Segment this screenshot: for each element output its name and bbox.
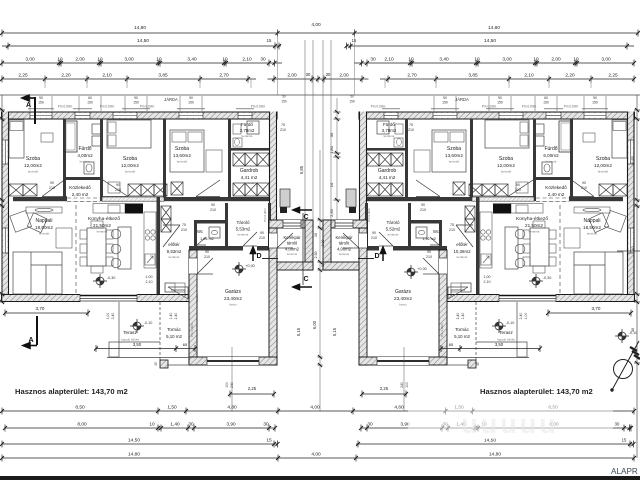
svg-text:2,00: 2,00 [321,240,325,247]
svg-text:-0,10: -0,10 [506,321,515,325]
kitchen counter and fridge (left unit) [93,204,125,214]
wc top wall (right unit) [411,220,442,224]
svg-text:3,40: 3,40 [439,57,449,63]
shower wc sink bath2 (left unit) [247,121,259,134]
svg-text:Pm 0,90m: Pm 0,90m [371,105,386,109]
svg-text:210: 210 [204,255,210,259]
sliding door pocket kitchen (right unit) [472,197,534,201]
svg-text:Szoba: Szoba [499,156,513,162]
svg-text:-0,10: -0,10 [144,321,153,325]
section line C-C [302,213,304,285]
svg-text:5,85: 5,85 [299,165,304,174]
svg-text:laminált: laminált [449,160,460,164]
svg-text:90: 90 [134,96,138,100]
svg-text:30: 30 [367,422,373,428]
svg-text:Közlekedő: Közlekedő [545,185,567,190]
centre vertical extension lines right pair [322,40,324,220]
armchair 2 living (right unit) [589,213,609,233]
wardrobe bedroom3 (left unit) [206,150,222,172]
svg-text:ALAPR: ALAPR [611,467,638,476]
svg-text:10: 10 [149,422,155,428]
svg-text:2,40: 2,40 [111,313,115,320]
garage left wall (right unit) [439,250,447,363]
garage top wall door opening (right unit) [379,246,393,251]
bed bedroom3 (right unit) [432,130,466,172]
svg-text:150: 150 [281,100,287,104]
small dim 2,25 below garage (left unit) [230,393,274,395]
svg-text:150: 150 [442,101,448,105]
svg-text:90: 90 [421,203,425,207]
svg-text:23,40m2: 23,40m2 [394,296,412,301]
svg-text:3,00: 3,00 [601,57,611,63]
svg-text:1,00: 1,00 [524,313,528,320]
svg-text:1,80: 1,80 [329,145,334,154]
interior wall bath/bedroom2 (right unit) [533,119,536,197]
section marker A top [22,95,36,124]
svg-text:23,40m2: 23,40m2 [224,296,242,301]
svg-text:2,25: 2,25 [608,73,618,79]
spot level symbol kitchen (left unit) [93,274,107,288]
window in top wall bedroom 3 (left unit) [179,113,203,118]
svg-text:1,40: 1,40 [170,422,180,428]
bed bedroom2 (right unit) [485,120,529,148]
svg-text:A: A [26,102,31,109]
svg-text:2,10: 2,10 [146,280,153,284]
garage top wall door opening (left unit) [243,246,257,251]
coffee table living (right unit) [564,228,580,248]
svg-text:laminált: laminált [501,170,512,174]
svg-text:210: 210 [181,228,187,232]
svg-text:2,00: 2,00 [287,73,297,79]
svg-text:Pm 1,90m: Pm 1,90m [190,323,194,337]
svg-text:4,00: 4,00 [311,22,321,28]
svg-text:240: 240 [400,382,404,388]
svg-text:90: 90 [260,231,264,235]
window in top wall bedroom 1 (left unit) [30,113,52,118]
svg-text:3,85: 3,85 [468,73,478,79]
svg-text:2,20: 2,20 [61,73,71,79]
svg-text:előtér: előtér [168,242,180,247]
svg-text:3,78m2: 3,78m2 [240,128,255,133]
svg-text:2,10: 2,10 [524,73,534,79]
svg-text:30: 30 [188,422,194,428]
bathtub bath1 (right unit) [559,121,572,152]
svg-text:C: C [303,214,308,221]
entry hall wardrobe boxes (right unit) [465,206,475,219]
svg-text:6,00: 6,00 [312,320,317,329]
door swing bedroom2 (left unit) [100,178,128,197]
svg-text:D: D [374,253,379,260]
svg-text:Kerékpár: Kerékpár [284,235,302,240]
svg-text:60: 60 [88,96,92,100]
svg-text:kerámia: kerámia [97,230,108,234]
window in left wall bedroom 1 (right unit) [629,140,633,164]
svg-text:2,70: 2,70 [219,73,229,79]
svg-text:1,96 m2: 1,96 m2 [200,237,214,241]
interior wall rooms / living zone (right unit) [367,197,623,201]
svg-text:laminált: laminált [28,170,39,174]
svg-text:10: 10 [97,57,103,63]
svg-text:6,65: 6,65 [631,156,635,163]
svg-text:Fürdő: Fürdő [383,122,395,127]
svg-text:beton: beton [399,303,407,307]
svg-text:65: 65 [183,342,188,347]
svg-text:1,40: 1,40 [631,246,635,253]
outer right wall of main body (right unit) [359,112,367,229]
svg-text:3,85: 3,85 [158,73,168,79]
svg-text:50: 50 [282,95,286,99]
svg-text:30: 30 [260,57,266,63]
entry steps (left unit) [168,287,188,299]
porch pillar (right unit) [468,360,476,368]
svg-text:90: 90 [372,231,376,235]
chimney block outside right wall (left unit) [280,189,290,207]
svg-text:8,00: 8,00 [77,422,87,428]
svg-text:kerámia: kerámia [287,252,297,256]
svg-text:beton: beton [229,303,237,307]
chest bedroom3 (right unit) [453,182,465,195]
svg-text:10: 10 [408,57,414,63]
svg-text:3,40: 3,40 [187,57,197,63]
svg-text:21,50m2: 21,50m2 [525,223,543,228]
svg-text:150: 150 [497,101,503,105]
wc fixture rear wing (left unit) [209,227,220,238]
svg-text:laminált: laminált [244,181,255,185]
right centre chain ticks and labels 30/1,80/10/2,30 [329,98,341,220]
garage bottom wall (left unit) [189,357,277,365]
door swing entry hall (left unit) [163,225,180,247]
svg-text:3,00: 3,00 [502,57,512,63]
svg-text:Hasznos alapterület: 143,70 m2: Hasznos alapterület: 143,70 m2 [15,387,128,396]
bottom dim row 14,50/15 (both units) [0,438,636,448]
svg-text:90: 90 [50,181,54,185]
svg-text:30: 30 [326,72,331,77]
svg-text:150: 150 [133,101,139,105]
storage room right wall (right unit) [365,203,368,246]
svg-text:90: 90 [427,250,431,254]
nightstand bedroom1 (right unit) [583,133,595,142]
section marker C bottom [293,284,312,289]
outer right wall of main body (left unit) [269,112,277,229]
svg-text:1,96 m2: 1,96 m2 [422,237,436,241]
svg-text:3,00: 3,00 [25,57,35,63]
interior wall bedroom1/bath (left unit) [63,119,66,197]
outer bottom wall of main body (left unit) [2,294,198,302]
svg-text:Pm 0,90m: Pm 0,90m [522,105,537,109]
svg-text:90: 90 [582,181,586,185]
centre vertical extension lines left pair [304,40,306,220]
svg-text:1,50: 1,50 [167,405,177,411]
svg-text:30: 30 [370,57,376,63]
svg-text:Tároló: Tároló [236,220,249,225]
interior wall bath/bedroom2 (left unit) [100,119,103,197]
hall sliding door dashes (right unit) [536,197,569,199]
svg-text:Garázs: Garázs [225,289,242,295]
outer bottom wall of main body (right unit) [439,294,635,302]
svg-text:210: 210 [515,188,521,192]
window in left wall living room (right unit) [629,228,633,253]
svg-text:150: 150 [87,101,93,105]
bike storage window (left unit) [283,220,301,228]
svg-text:12,00m2: 12,00m2 [121,163,139,168]
door size labels (right unit) [349,95,587,285]
svg-text:14,80: 14,80 [489,452,501,458]
porch pillar (left unit) [160,360,168,368]
outer top wall (left unit) [2,112,278,120]
spot level symbol garage (right unit) [404,265,418,279]
door opening hall (left unit) [67,197,100,201]
svg-text:kerámia: kerámia [388,233,399,237]
svg-text:2,25: 2,25 [380,386,389,391]
svg-text:2,40: 2,40 [519,313,523,320]
svg-text:100: 100 [405,382,409,388]
svg-text:150: 150 [188,101,194,105]
svg-text:10: 10 [474,57,480,63]
svg-text:210: 210 [426,255,432,259]
svg-text:2,00: 2,00 [339,73,349,79]
armchair living (left unit) [10,210,32,232]
wardrobe bedroom3 (right unit) [414,150,430,172]
svg-text:Wc: Wc [197,229,203,234]
svg-text:2,10: 2,10 [384,57,394,63]
wc fixture rear wing (right unit) [416,227,427,238]
svg-text:2,40 m2: 2,40 m2 [72,192,89,197]
top row 4 centre segment 2,00/30/30/2,00 [268,78,369,80]
svg-text:150: 150 [543,101,549,105]
svg-text:90: 90 [189,96,193,100]
svg-text:5,10 m2: 5,10 m2 [166,334,182,339]
svg-text:kerámia: kerámia [169,255,180,259]
extension lines from top rows to building [45,35,591,95]
svg-text:Fürdő: Fürdő [78,146,91,152]
window in top wall bath 2 (right unit) [384,113,398,118]
svg-text:90: 90 [498,96,502,100]
outer left wall (right unit) [627,112,635,303]
spot level symbol kitchen (right unit) [529,274,543,288]
entry hall cabinet (right unit) [451,283,471,292]
svg-text:210: 210 [371,236,377,240]
svg-text:210: 210 [420,208,426,212]
svg-text:Hasznos alapterület: 143,70 m2: Hasznos alapterület: 143,70 m2 [480,387,593,396]
svg-text:A: A [28,337,33,344]
interior wall rooms / living zone (left unit) [13,197,269,201]
wardrobe rows gardrob (right unit) [391,153,403,166]
svg-text:15: 15 [622,438,627,443]
garage left wall door opening (right unit) [439,258,447,274]
svg-text:2,00: 2,00 [75,57,85,63]
svg-text:-0,10: -0,10 [629,331,638,335]
svg-text:4,80: 4,80 [227,405,237,411]
door swing bedroom1 (right unit) [569,178,594,197]
svg-text:Szoba: Szoba [26,156,40,162]
dimension row 14,80 / 4,00 / 14,80 (top row 1) [0,22,640,37]
dashed divider living/kitchen (left unit) [75,205,77,294]
door swing bedroom2 (right unit) [508,178,536,197]
svg-text:5,53m2: 5,53m2 [236,227,251,232]
svg-text:Fürdő: Fürdő [241,122,253,127]
interior wall bedroom3/bath2 (right unit) [405,119,408,197]
svg-text:Fürdő: Fürdő [544,146,557,152]
interior wall bedroom1/bath (right unit) [570,119,573,197]
svg-text:2,10: 2,10 [102,73,112,79]
svg-text:4,41 m2: 4,41 m2 [379,175,396,180]
svg-text:10: 10 [329,182,334,187]
section marker D right unit [358,247,386,261]
wc sink bath1 (right unit) [542,162,552,174]
armchair 2 living (left unit) [27,213,47,233]
svg-text:kerámia: kerámia [457,255,468,259]
svg-text:210: 210 [581,186,587,190]
garage right wall (right unit) [359,228,367,365]
room labels (right unit) [336,122,613,342]
svg-text:5,15: 5,15 [296,327,301,336]
svg-text:1,00: 1,00 [146,275,153,279]
svg-text:laminált: laminált [598,170,609,174]
svg-text:Terasz: Terasz [123,330,137,335]
entry hall wardrobe boxes (left unit) [161,206,171,219]
outer left wall (left unit) [2,112,10,303]
interior wall bath2/gardrob (right unit) [367,148,405,151]
wc top wall (left unit) [194,220,225,224]
svg-text:fogadó felület: fogadó felület [497,338,515,342]
small dim 3,50/65 under terrace (left unit) [96,348,195,350]
terrace sliding door in bottom wall (right unit) [499,294,556,302]
svg-text:laminált: laminált [125,170,136,174]
svg-text:2,00: 2,00 [551,57,561,63]
svg-text:JÁRDA: JÁRDA [164,97,178,102]
wardrobe rows gardrob (left unit) [233,153,245,166]
svg-text:13,60m2: 13,60m2 [445,153,463,158]
storage room right wall (left unit) [268,203,271,246]
window in left wall bedroom 1 (left unit) [3,140,7,164]
wc left wall (left unit) [194,220,197,246]
svg-text:30: 30 [263,422,269,428]
washer dryer bath1 (left unit) [92,124,101,134]
interior wall bath2/gardrob (left unit) [231,148,269,151]
svg-text:14,50: 14,50 [137,38,149,44]
kitchen island with stools (right unit) [505,227,518,269]
svg-text:Tornác: Tornác [455,327,469,332]
svg-text:Konyha-étkező: Konyha-étkező [516,216,548,222]
interior wall bedroom3/bath2 (left unit) [228,119,231,197]
bed bedroom2 (left unit) [107,120,151,148]
svg-text:4,00: 4,00 [310,405,320,411]
svg-text:45: 45 [476,362,480,366]
svg-text:2,40: 2,40 [174,313,178,320]
svg-text:4,00: 4,00 [311,452,321,458]
svg-text:10: 10 [314,233,318,237]
svg-text:tároló: tároló [339,241,350,246]
svg-text:Pm 0,90m: Pm 0,90m [564,105,579,109]
wardrobe row bedroom1 (left unit) [9,184,23,196]
svg-text:18,50m2: 18,50m2 [583,225,601,230]
svg-text:50: 50 [350,95,354,99]
faint watermark overlay [408,401,613,439]
svg-text:Közlekedő: Közlekedő [69,185,91,190]
garage left wall (left unit) [189,250,197,363]
svg-text:-0,30: -0,30 [107,276,116,280]
svg-text:6,00m2: 6,00m2 [543,153,559,158]
interior wall bath bottom (left unit) [63,177,103,180]
window sill lines above top wall [28,108,54,110]
svg-text:C: C [303,276,308,283]
svg-text:Pm 0,90m: Pm 0,90m [482,105,497,109]
bike storage right wall at centre (left unit) [305,220,313,270]
svg-text:Kerékpár: Kerékpár [336,235,354,240]
svg-text:150: 150 [349,100,355,104]
bathtub bath1 (left unit) [64,121,77,152]
svg-text:Szoba: Szoba [123,156,137,162]
svg-text:Konyha-étkező: Konyha-étkező [88,216,120,222]
bike storage top wall (right unit) [323,220,367,228]
bike storage window (right unit) [335,220,353,228]
svg-text:15: 15 [267,38,272,43]
svg-text:kerámia: kerámia [80,160,91,164]
storage room left wall (left unit) [225,203,228,250]
svg-text:Wc: Wc [433,229,439,234]
svg-text:laminált: laminált [382,181,393,185]
svg-text:5,10 m2: 5,10 m2 [454,334,470,339]
bike storage right wall at centre (right unit) [323,220,331,270]
svg-text:Szoba: Szoba [596,156,610,162]
svg-text:10: 10 [222,57,228,63]
bike storage bottom wall (right unit) [323,262,359,270]
svg-text:Garázs: Garázs [395,289,412,295]
svg-text:2,30: 2,30 [329,208,334,217]
garage door opening (left unit) [207,357,259,365]
door swing bedroom1 (left unit) [42,178,67,197]
tv bench living (left unit) [26,207,62,213]
wc sink bath1 (left unit) [84,162,94,174]
room labels (left unit) [24,122,301,342]
svg-text:laminált: laminált [39,232,50,236]
window in top wall bath 1 (right unit) [546,113,561,118]
svg-text:210: 210 [280,128,286,132]
svg-text:10: 10 [533,57,539,63]
sofa living (right unit) [574,252,623,294]
small dim 3,50/65 under terrace (right unit) [441,348,540,350]
svg-text:1,40: 1,40 [169,313,173,320]
section marker A bottom [23,316,37,348]
small dim 2,25 below garage (right unit) [362,393,406,395]
north arrow symbol [611,341,640,391]
svg-text:14,50: 14,50 [484,38,496,44]
garage right wall (left unit) [269,228,277,365]
door swing entry hall (right unit) [456,225,473,247]
sofa living (left unit) [13,252,62,294]
nightstand bedroom1 (left unit) [41,133,53,142]
bike storage door opening in garage wall (right unit) [359,233,367,248]
terrace outline (left unit) [118,302,120,342]
svg-text:uuuuu: uuuuu [461,409,558,439]
desk bedroom2 (right unit) [516,182,528,193]
washer dryer bath1 (right unit) [535,124,544,134]
terrace outline (right unit) [516,302,518,342]
svg-text:4,60: 4,60 [394,405,404,411]
svg-text:2,70: 2,70 [407,73,417,79]
svg-text:Szoba: Szoba [447,146,461,152]
svg-text:Pm 0,90m: Pm 0,90m [251,105,266,109]
svg-text:210: 210 [449,228,455,232]
dimension row 14,50 / 15 (top row 2) [2,38,634,50]
svg-text:150: 150 [38,101,44,105]
spot level symbol terrace (right unit) [492,319,506,333]
svg-text:2,10: 2,10 [484,280,491,284]
svg-text:10: 10 [57,57,63,63]
svg-text:előtér: előtér [456,242,468,247]
svg-text:1,00: 1,00 [484,275,491,279]
svg-text:13,60m2: 13,60m2 [173,153,191,158]
